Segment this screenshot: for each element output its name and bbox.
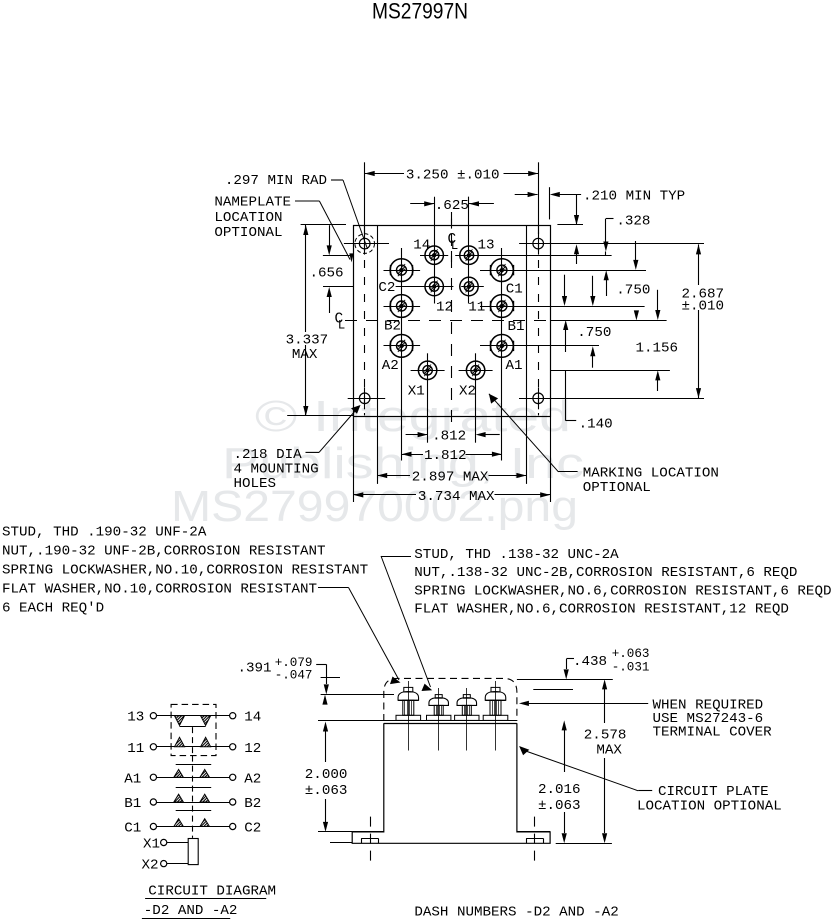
dimension 2.897 MAX [377, 417, 379, 484]
diode CR3 (11 row left) [175, 737, 185, 747]
mounting hole bottom-left [359, 393, 370, 404]
bus bar above A row [176, 764, 212, 766]
diode CR8 (B row right) [200, 794, 210, 802]
terminal stud X2 [466, 361, 484, 379]
stud row line 14-13 [420, 255, 448, 257]
svg-text:±.063: ±.063 [305, 783, 348, 799]
stud column line 13/11 [468, 197, 470, 304]
svg-text:12: 12 [244, 741, 261, 757]
leader from .190 stud note to side view stud [318, 587, 349, 589]
svg-text:STUD, THD .190-32 UNF-2A: STUD, THD .190-32 UNF-2A [2, 525, 207, 541]
watermark [171, 392, 584, 531]
terminal C2 [230, 823, 236, 829]
terminal X1 [161, 839, 167, 845]
svg-text:OPTIONAL: OPTIONAL [214, 225, 282, 241]
dimension .656 [323, 255, 353, 257]
svg-text:3.337: 3.337 [286, 333, 329, 349]
cover top extension right [517, 679, 613, 681]
terminal stud 13 [460, 246, 478, 264]
dimension .210 MIN TYP [549, 187, 551, 219]
svg-text:.140: .140 [579, 416, 613, 432]
wire A1-A2 row [157, 777, 230, 779]
dimension 2.687 +/-.010 [698, 244, 700, 285]
terminal B1 [150, 799, 156, 805]
center dashed line in box [192, 727, 194, 756]
diode CR7 (B row left) [174, 794, 184, 802]
wire C1-C2 row [157, 826, 230, 828]
terminal stud A1 [491, 335, 514, 358]
svg-text:OPTIONAL: OPTIONAL [583, 480, 651, 496]
terminal C1 [150, 823, 156, 829]
svg-text:14: 14 [244, 710, 261, 726]
svg-text:A2: A2 [382, 358, 399, 374]
svg-text:STUD, THD .138-32 UNC-2A: STUD, THD .138-32 UNC-2A [414, 547, 619, 563]
stud row line X1-X2 [411, 370, 445, 372]
coil box [188, 839, 198, 865]
dimension .750 upper right [635, 241, 637, 260]
mounting hole centerline right (dashed) [538, 226, 540, 415]
svg-text:CIRCUIT DIAGRAM: CIRCUIT DIAGRAM [148, 884, 276, 900]
base bottom extension left [330, 842, 352, 844]
dimension .812 [406, 434, 428, 436]
svg-text:HOLES: HOLES [234, 476, 277, 492]
side view body outline [352, 723, 550, 843]
wire 11-12 row [157, 746, 230, 748]
svg-text:FLAT WASHER,NO.6,CORROSION RES: FLAT WASHER,NO.6,CORROSION RESISTANT,12 … [414, 601, 789, 617]
side view body top edge [384, 723, 517, 725]
diode CR5 (A row left) [174, 770, 184, 778]
dimension 1.156 [634, 310, 639, 320]
dimension .625 [434, 197, 436, 246]
dimension 2.000 +/-.063 [318, 720, 384, 722]
svg-text:MAX: MAX [596, 743, 622, 759]
svg-text:SPRING LOCKWASHER,NO.6,CORROSI: SPRING LOCKWASHER,NO.6,CORROSION RESISTA… [414, 583, 831, 599]
mounting hole top-right [533, 238, 544, 249]
svg-text:TERMINAL COVER: TERMINAL COVER [653, 724, 773, 740]
hole row extension lines bottom [348, 398, 386, 400]
svg-text:2.897 MAX: 2.897 MAX [412, 470, 489, 486]
svg-text:6 EACH REQ'D: 6 EACH REQ'D [2, 601, 104, 617]
stud row line 12-11 [396, 286, 454, 288]
terminal stud C2 [390, 259, 413, 282]
stud row line C2-C1 [384, 270, 421, 272]
diode CR1 (13 row left, cathode down) [175, 716, 185, 726]
wire B1-B2 row [157, 802, 230, 804]
wire X2 to coil box [167, 863, 188, 865]
diode CR9 (C row left) [174, 819, 184, 827]
svg-text:3.734 MAX: 3.734 MAX [418, 489, 495, 505]
svg-text:MAX: MAX [292, 347, 318, 363]
svg-text:A2: A2 [244, 771, 261, 787]
svg-text:2.016: 2.016 [538, 782, 581, 798]
diode CR6 (A row right) [200, 770, 210, 778]
svg-text:14: 14 [413, 238, 430, 254]
svg-text:LOCATION: LOCATION [214, 210, 282, 226]
horizontal centerline [345, 320, 550, 322]
terminal stud B2 [390, 295, 413, 318]
svg-text:DASH NUMBERS -D2 AND -A2: DASH NUMBERS -D2 AND -A2 [414, 904, 618, 920]
svg-text:NAMEPLATE: NAMEPLATE [214, 195, 291, 211]
base bottom extension right [556, 843, 612, 845]
wire X1 to coil box [167, 842, 188, 844]
terminal 14 [230, 713, 236, 719]
terminal 12 [230, 744, 236, 750]
svg-text:-.047: -.047 [275, 668, 313, 682]
svg-text:13: 13 [127, 710, 144, 726]
side view foot centerline right [534, 817, 536, 867]
mounting hole top-left with nameplate radius arc [359, 238, 370, 249]
svg-text:B2: B2 [244, 796, 261, 812]
circuit diagram dashed box [171, 704, 216, 755]
side view foot centerline left [370, 817, 372, 867]
svg-text:.210 MIN TYP: .210 MIN TYP [583, 189, 685, 205]
svg-text:B2: B2 [384, 318, 401, 334]
dimension 3.734 MAX [353, 417, 355, 502]
svg-text:.750: .750 [577, 325, 611, 341]
terminal stud A2 [390, 335, 413, 358]
diode CR2 (13 row right, cathode down) [201, 716, 211, 726]
side view stud 1 (.190) [398, 692, 419, 701]
mounting hole centerline left (dashed) [364, 226, 366, 415]
svg-text:11: 11 [468, 299, 485, 315]
svg-text:-.031: -.031 [612, 660, 650, 674]
cover top extension left + cap plane extension left [321, 677, 340, 679]
svg-text:C2: C2 [244, 821, 261, 837]
svg-text:MS27997N: MS27997N [372, 0, 468, 24]
svg-text:NUT,.190-32 UNF-2B,CORROSION R: NUT,.190-32 UNF-2B,CORROSION RESISTANT [2, 544, 326, 560]
side view foot steps [352, 831, 384, 833]
side view circuit plate line [384, 720, 517, 722]
terminal cover dashed outline [384, 678, 517, 721]
svg-text:NUT,.138-32 UNC-2B,CORROSION R: NUT,.138-32 UNC-2B,CORROSION RESISTANT,6… [414, 565, 797, 581]
terminal stud 11 [460, 277, 478, 295]
dimension 2.578 MAX [602, 679, 607, 689]
note MARKING LOCATION OPTIONAL with leader [489, 394, 559, 472]
svg-text:+.063: +.063 [612, 647, 650, 661]
svg-text:12: 12 [436, 299, 453, 315]
svg-text:X2: X2 [142, 858, 159, 874]
svg-text:.656: .656 [310, 265, 344, 281]
bus bar above B row [176, 787, 212, 789]
top view plate outline [354, 226, 551, 417]
svg-text:.750: .750 [616, 282, 650, 298]
svg-text:2.578: 2.578 [584, 728, 627, 744]
terminal stud C1 [491, 259, 514, 282]
svg-text:1.812: 1.812 [424, 448, 467, 464]
terminal B2 [230, 799, 236, 805]
cathode bar under 13-14 diodes [180, 726, 206, 728]
plate inner edge line right [526, 225, 528, 416]
mounting hole bottom-right [533, 393, 544, 404]
dimension 2.016 +/-.063 [562, 720, 567, 730]
svg-text:L: L [338, 318, 346, 332]
side view stud 2 (.138) [429, 698, 449, 706]
svg-text:SPRING LOCKWASHER,NO.10,CORROS: SPRING LOCKWASHER,NO.10,CORROSION RESIST… [2, 563, 368, 579]
svg-text:C1: C1 [124, 821, 141, 837]
terminal A2 [230, 774, 236, 780]
diode CR4 (11 row right) [201, 737, 211, 747]
svg-text:11: 11 [127, 741, 144, 757]
terminal 13 [150, 713, 156, 719]
bus bar above C row [176, 810, 212, 812]
svg-text:L: L [451, 239, 459, 253]
dimension .140 [565, 370, 567, 420]
stud column line C1-A1 [501, 248, 503, 461]
svg-text:LOCATION OPTIONAL: LOCATION OPTIONAL [637, 799, 782, 815]
stud column line 14/12 [434, 198, 436, 304]
svg-text:C1: C1 [506, 282, 523, 298]
svg-text:A1: A1 [124, 771, 141, 787]
terminal stud B1 [491, 295, 514, 318]
dimension 1.812 [401, 417, 403, 461]
terminal stud X1 [418, 361, 436, 379]
svg-text:±.063: ±.063 [538, 798, 581, 814]
svg-text:.438: .438 [573, 654, 607, 670]
terminal stud 12 [425, 277, 443, 295]
cap plane extension right [533, 689, 573, 691]
svg-text:X2: X2 [459, 384, 476, 400]
svg-text:X1: X1 [143, 837, 160, 853]
diode CR10 (C row right) [200, 819, 210, 827]
svg-text:B1: B1 [508, 319, 525, 335]
side view stud 4 (.190) [485, 692, 506, 701]
dimension 3.337 MAX [301, 224, 346, 226]
svg-text:3.250 ±.010: 3.250 ±.010 [406, 168, 500, 184]
dimension 3.250 +/-.010 [364, 162, 366, 233]
side view stud 3 (.138) [457, 698, 477, 706]
svg-text:.812: .812 [432, 429, 466, 445]
svg-text:2.000: 2.000 [305, 767, 348, 783]
svg-text:C2: C2 [378, 280, 395, 296]
wire 13-14 row [157, 715, 230, 717]
svg-text:.391: .391 [238, 661, 272, 677]
svg-text:±.010: ±.010 [682, 299, 725, 315]
stud row line A2-A1 [384, 345, 421, 347]
svg-text:1.156: 1.156 [636, 341, 679, 357]
svg-text:13: 13 [478, 238, 495, 254]
svg-text:FLAT WASHER,NO.10,CORROSION RE: FLAT WASHER,NO.10,CORROSION RESISTANT [2, 582, 317, 598]
svg-text:X1: X1 [408, 384, 425, 400]
dimension .750 lower right [563, 320, 568, 330]
terminal stud 14 [425, 246, 443, 264]
svg-text:.328: .328 [616, 214, 650, 230]
plate inner edge line left [377, 225, 379, 416]
terminal 11 [150, 744, 156, 750]
note WHEN REQUIRED USE MS27243-6 TERMINAL COVER with leader [519, 701, 529, 706]
terminal X2 [161, 861, 167, 867]
svg-text:B1: B1 [124, 796, 141, 812]
terminal A1 [150, 774, 156, 780]
dimension .328 [574, 244, 579, 254]
stud column line X1 [427, 353, 429, 442]
vertical centerline [451, 212, 453, 427]
stud column line X2 [475, 353, 477, 442]
hole row extension lines top [344, 243, 389, 245]
svg-text:A1: A1 [506, 358, 523, 374]
svg-text:.625: .625 [435, 198, 469, 214]
center dashed line below box [192, 756, 194, 838]
note CIRCUIT PLATE LOCATION OPTIONAL with leader [519, 746, 529, 755]
svg-text:.297 MIN RAD: .297 MIN RAD [225, 173, 327, 189]
svg-text:-D2 AND -A2: -D2 AND -A2 [144, 903, 238, 919]
svg-text:MS279970002.png: MS279970002.png [171, 482, 578, 531]
leader from .138 stud note to side view stud [381, 556, 411, 558]
stud column line C2-A2 [401, 248, 403, 461]
stud row line B2-B1 [384, 306, 421, 308]
